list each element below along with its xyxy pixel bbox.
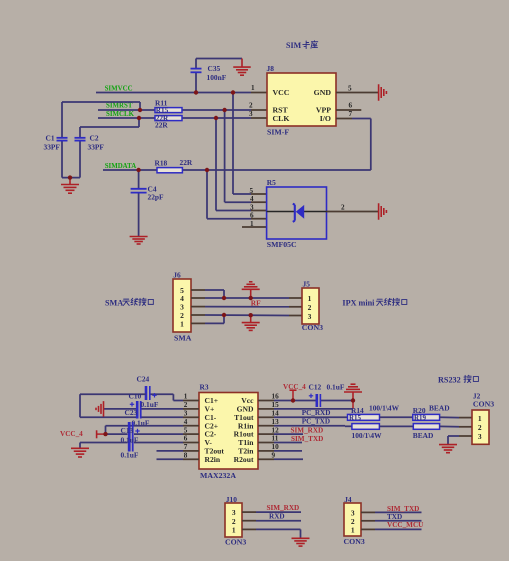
wire net SIMRST <box>98 109 267 111</box>
svg-text:PC_RXD: PC_RXD <box>302 409 331 417</box>
svg-text:R3: R3 <box>200 383 209 392</box>
capacitor C4 22pF <box>131 170 164 237</box>
designator C23 <box>125 408 138 417</box>
svg-text:2: 2 <box>478 423 482 432</box>
net label RF <box>251 299 261 308</box>
svg-text:BEAD: BEAD <box>413 431 434 440</box>
ground (inverted, above RF wire) <box>242 282 260 298</box>
pin 7 stub (T2out) <box>157 450 200 452</box>
capacitor C35 100nF <box>191 64 227 82</box>
capacitors C10/C23 0.1uF (stacked plates) <box>137 401 141 419</box>
connector J4 CON3 <box>344 495 365 546</box>
svg-text:BEAD: BEAD <box>429 404 450 413</box>
svg-text:SMA: SMA <box>174 333 192 342</box>
svg-text:C10: C10 <box>129 391 142 400</box>
svg-text:SIMVCC: SIMVCC <box>105 85 133 92</box>
polarity + (C24) <box>152 393 156 397</box>
wire (SIMRST tap to R5 pin4) <box>225 110 267 202</box>
junction <box>222 296 226 300</box>
svg-text:SIM_TXD: SIM_TXD <box>387 505 419 513</box>
connector J2 CON3 (RS232) <box>472 392 494 445</box>
wire (C2 branch: SIMCLK loop) <box>62 118 139 178</box>
wire net TXD (J4 pin2) <box>361 520 422 522</box>
svg-text:15: 15 <box>272 401 280 409</box>
svg-text:14: 14 <box>272 410 280 418</box>
pin 1 (J8 VCC) <box>251 84 255 92</box>
svg-text:I/O: I/O <box>320 114 331 123</box>
svg-text:C35: C35 <box>208 64 221 73</box>
svg-text:1: 1 <box>232 525 236 534</box>
svg-text:22R: 22R <box>155 121 168 130</box>
junction <box>249 296 253 300</box>
pin 10 stub (T2in) <box>258 450 302 452</box>
ground (C4) <box>130 237 148 245</box>
svg-text:0.1uF: 0.1uF <box>141 400 159 409</box>
net label RXD <box>269 513 285 521</box>
svg-text:9: 9 <box>272 452 276 460</box>
svg-text:C24: C24 <box>137 375 150 384</box>
wire (J10 pin1 to ground) <box>242 529 301 538</box>
svg-text:RXD: RXD <box>269 513 285 521</box>
svg-text:R15: R15 <box>156 106 169 114</box>
wire net SIMCLK <box>98 117 267 119</box>
net label TXD <box>387 513 402 521</box>
wire (J2 pin3 to ground) <box>448 436 472 445</box>
svg-text:16: 16 <box>272 393 280 401</box>
junction <box>214 116 218 120</box>
svg-text:8: 8 <box>184 452 188 460</box>
svg-text:R2out: R2out <box>234 455 254 464</box>
pin 9 (R3) <box>272 452 276 460</box>
pin 6 (R3) <box>184 435 188 443</box>
power port VCC_4 (left) <box>60 430 106 439</box>
resistor R15 22R <box>155 115 182 130</box>
ground (C35) <box>233 59 251 76</box>
ground (C1/C2) <box>61 178 79 194</box>
svg-text:C23: C23 <box>125 408 138 417</box>
ground (J10 pin1) <box>292 538 310 546</box>
svg-text:22R: 22R <box>180 158 193 167</box>
net label SIM_TXD (J4) <box>387 505 419 513</box>
svg-text:1: 1 <box>478 414 482 423</box>
pin 11 (R3) <box>272 435 279 443</box>
svg-text:SIM: SIM <box>286 41 302 50</box>
wire net RXD (J10 pin2) <box>242 520 301 522</box>
ground (inverted, above C12 node) <box>344 384 362 400</box>
capacitor C24 0.1uF <box>137 375 150 400</box>
svg-text:4: 4 <box>250 195 254 203</box>
resistor (lower) 100/1\4W <box>352 424 383 441</box>
svg-text:12: 12 <box>272 426 280 434</box>
svg-text:RS232: RS232 <box>438 375 461 384</box>
designator C10 <box>129 391 142 400</box>
svg-text:TXD: TXD <box>387 513 402 521</box>
net label SIMCLK <box>106 111 135 118</box>
junction <box>222 313 226 317</box>
wire net SIM_RXD (pin12 stub) <box>258 433 303 435</box>
svg-text:5: 5 <box>184 426 188 434</box>
svg-text:1: 1 <box>251 84 255 92</box>
svg-text:1: 1 <box>180 319 184 328</box>
wire (SIMDATA tap to R5 pin6) <box>207 170 267 219</box>
svg-text:5: 5 <box>348 84 352 92</box>
svg-text:6: 6 <box>349 101 353 109</box>
wire (J6 pin3 to J5 pin2) <box>191 306 302 308</box>
pin 3 (J8 CLK) <box>249 110 253 118</box>
connector J8 SIM-F <box>267 64 337 137</box>
pin 2 (R3) <box>184 401 188 409</box>
svg-text:SIMRST: SIMRST <box>106 103 133 110</box>
pin 6 (R5) <box>250 212 254 220</box>
net label SIM_RXD <box>291 426 324 434</box>
junction <box>103 432 107 436</box>
wire (pin16 Vcc row) <box>258 400 353 402</box>
svg-text:5: 5 <box>250 187 254 195</box>
wire net SIMDATA <box>103 119 371 171</box>
pin 1 (R5) stub <box>242 226 267 228</box>
resistor R18 22R <box>155 158 193 173</box>
wire (bead to J2 pin2) <box>440 425 472 427</box>
connector J6 SMA <box>173 271 192 343</box>
pin 5 (J8 GND) + wire <box>336 84 379 92</box>
net label SIMVCC <box>105 85 133 92</box>
polarity + (C13) <box>135 429 139 433</box>
pin 5 (R5) <box>250 187 254 195</box>
svg-text:7: 7 <box>184 443 188 451</box>
svg-text:SIMCLK: SIMCLK <box>106 111 135 118</box>
wire net SIM_TXD (J4 pin3) <box>361 511 422 513</box>
wire net PC_RXD (pin14 row) <box>258 416 348 418</box>
capacitor C1 33PF <box>44 134 68 152</box>
connector J10 CON3 <box>225 495 246 546</box>
svg-text:7: 7 <box>349 110 353 118</box>
svg-text:CLK: CLK <box>273 114 290 123</box>
ferrite bead (lower) BEAD <box>413 424 440 441</box>
connector J5 CON3 (IPX) <box>302 279 323 332</box>
svg-text:SIM_TXD: SIM_TXD <box>291 435 323 443</box>
svg-text:100nF: 100nF <box>207 73 227 82</box>
svg-text:6: 6 <box>250 212 254 220</box>
pin 3 (R3) <box>184 410 188 418</box>
ground (J2 pin3) <box>439 445 457 453</box>
resistor R11 22R <box>155 98 182 114</box>
wire net SIM_TXD (pin11 stub) <box>258 442 302 444</box>
wire (SIMVCC tap to R5 pin5) <box>233 93 267 195</box>
svg-text:3: 3 <box>250 204 254 212</box>
net label PC_TXD <box>302 417 330 425</box>
capacitor C2 33PF <box>75 134 105 152</box>
svg-text:1: 1 <box>250 220 254 228</box>
wire (pin4 C2+ row down to VCC_4 node) <box>106 426 200 434</box>
svg-text:2: 2 <box>341 203 345 211</box>
junction <box>231 90 235 94</box>
pin 3 (R5) <box>250 204 254 212</box>
wire (J6 pin1 up to pin2 net) <box>191 315 224 323</box>
ground (V- branch) <box>71 448 89 457</box>
TVS diode array R5 SMF05C <box>267 178 327 249</box>
pin 5 (R3) <box>184 426 188 434</box>
svg-text:C13: C13 <box>121 426 134 435</box>
label SMA antenna port <box>105 298 153 307</box>
junction <box>205 168 209 172</box>
junction <box>249 313 253 317</box>
wire net PC_TXD (pin13 row) <box>258 425 352 428</box>
svg-text:1: 1 <box>351 525 355 534</box>
diode symbol (in R5) <box>267 204 327 222</box>
svg-text:11: 11 <box>272 435 279 443</box>
value 0.1uF (C10) <box>141 400 159 409</box>
svg-text:0.1uF: 0.1uF <box>121 450 139 459</box>
pin 1 (R3) <box>184 393 188 401</box>
pin 7 (J8 I/O) wire <box>336 110 371 119</box>
svg-text:SIM_RXD: SIM_RXD <box>267 504 300 512</box>
pin 16 (R3) <box>272 393 280 401</box>
label IPX mini antenna port <box>342 298 406 307</box>
junction <box>351 398 355 402</box>
wire (J6 pin2 to J5 pin3) <box>191 314 302 317</box>
pin 13 (R3) <box>272 418 280 426</box>
resistor R14 100/1\4W (upper) <box>348 404 400 422</box>
title SIM card holder <box>286 41 318 50</box>
designator C13 <box>121 426 134 435</box>
wire RF net (J6 pin4 to J5 pin1) <box>191 297 302 299</box>
junction <box>138 108 142 112</box>
svg-text:CON3: CON3 <box>473 399 494 408</box>
power port VCC_4 (top right) <box>283 383 306 401</box>
pin 12 (R3) <box>272 426 280 434</box>
pin 2 (R5) + wire <box>327 203 379 211</box>
ferrite bead R20 BEAD (upper) <box>413 404 450 422</box>
pin 2 (J8 RST) <box>249 102 253 110</box>
capacitors C13 + 0.1uF (stacked plates) <box>129 422 133 452</box>
svg-text:2: 2 <box>184 401 188 409</box>
wire net VCC_MCU (J4 pin1) <box>361 528 422 530</box>
wire net SIM_RXD (J10 pin3) <box>242 511 301 513</box>
svg-text:C12: C12 <box>309 382 322 391</box>
wire net SIMVCC <box>96 59 267 93</box>
pin 14 (R3) <box>272 410 280 418</box>
wire (R14 to R20) upper <box>380 416 413 418</box>
svg-text:3: 3 <box>478 432 482 441</box>
wire (C1 branch: SIMRST loop) <box>62 102 140 178</box>
svg-text:VCC_4: VCC_4 <box>60 430 83 438</box>
wire (R20 to J2 pin1) <box>440 416 472 418</box>
svg-text:100/1\4W: 100/1\4W <box>352 431 383 440</box>
value 0.1uF (C13) <box>121 435 139 444</box>
net label SIMDATA <box>105 163 137 170</box>
value 0.1uF (lower bypass) <box>121 450 139 459</box>
wire (pin3 C1- row) <box>142 416 200 418</box>
IC R3 MAX232A <box>199 383 258 480</box>
pin 8 (R3) <box>184 452 188 460</box>
junction <box>194 90 198 94</box>
wire (pin15 GND row) <box>258 401 353 409</box>
pin 1 (R5) <box>250 220 254 228</box>
pin 9 stub (R2out) <box>258 458 303 460</box>
svg-text:CON3: CON3 <box>225 537 246 546</box>
svg-text:0.1uF: 0.1uF <box>327 382 345 391</box>
ground (R5 pin2, rotated right) <box>379 203 387 220</box>
pin 6 (J8 VPP) stub <box>336 101 361 110</box>
svg-text:SIM-F: SIM-F <box>267 127 289 136</box>
pin 10 (R3) <box>272 443 280 451</box>
wire (J6 pin5 to pin4 net) <box>191 290 224 298</box>
svg-text:PC_TXD: PC_TXD <box>302 417 330 425</box>
wire (C24 left loop to pin3 row) <box>80 394 146 417</box>
svg-text:1: 1 <box>184 393 188 401</box>
net label SIMRST <box>106 103 133 110</box>
net label SIM_RXD (J10) <box>267 504 300 512</box>
net label PC_RXD <box>302 409 331 417</box>
capacitor C12 0.1uF <box>309 382 345 407</box>
net label VCC_MCU <box>387 521 424 529</box>
svg-text:R5: R5 <box>267 178 276 187</box>
svg-text:100/1\4W: 100/1\4W <box>369 404 400 413</box>
svg-text:1: 1 <box>308 294 312 303</box>
pin 4 (R5) <box>250 195 254 203</box>
net label SIM_TXD <box>291 435 323 443</box>
svg-text:SMF05C: SMF05C <box>267 240 297 249</box>
junction <box>137 116 141 120</box>
svg-text:R19: R19 <box>414 414 427 422</box>
svg-text:33PF: 33PF <box>44 143 61 152</box>
junction <box>291 398 295 402</box>
svg-text:13: 13 <box>272 418 280 426</box>
svg-text:4: 4 <box>184 418 188 426</box>
svg-text:22pF: 22pF <box>148 193 165 202</box>
svg-text:J5: J5 <box>303 279 311 288</box>
svg-text:R2in: R2in <box>205 455 221 464</box>
junction <box>222 108 226 112</box>
polarity + (C10) <box>130 402 134 406</box>
svg-text:2: 2 <box>249 102 253 110</box>
svg-text:33PF: 33PF <box>88 143 105 152</box>
svg-text:MAX232A: MAX232A <box>200 471 236 480</box>
wire (pin6 V- row to ground) <box>80 443 199 449</box>
svg-text:SIM_RXD: SIM_RXD <box>291 426 324 434</box>
pin 15 (R3) <box>272 401 280 409</box>
wire (pin1 C1+ jog to C24) <box>150 394 200 400</box>
wire (SIMCLK tap to R5 pin3) <box>216 118 267 211</box>
svg-text:C1: C1 <box>46 134 55 143</box>
ground (rotated left, V+ row) <box>96 401 104 417</box>
label RS232 port <box>438 375 478 384</box>
wire (pin2 V+ row) <box>104 408 199 410</box>
ground (J8 GND, rotated right) <box>379 84 387 101</box>
svg-text:2: 2 <box>308 303 312 312</box>
junction <box>136 168 140 172</box>
value 0.1uF (C23) <box>132 418 150 427</box>
svg-text:GND: GND <box>314 88 332 97</box>
ground (below antenna wire) <box>242 315 260 330</box>
wire (lower resistors link) <box>379 425 413 427</box>
svg-text:VCC_MCU: VCC_MCU <box>387 521 424 529</box>
svg-text:R18: R18 <box>155 158 168 167</box>
svg-text:6: 6 <box>184 435 188 443</box>
junction <box>68 175 72 179</box>
svg-text:CON3: CON3 <box>344 537 365 546</box>
svg-text:10: 10 <box>272 443 280 451</box>
svg-text:C2: C2 <box>90 134 99 143</box>
svg-text:J8: J8 <box>267 64 275 73</box>
svg-text:SIMDATA: SIMDATA <box>105 163 137 170</box>
polarity + (C12) <box>309 394 313 398</box>
wire (pin5 C2- row) <box>106 433 200 435</box>
svg-text:VCC: VCC <box>273 88 290 97</box>
pin 8 stub (R2in) <box>157 458 200 460</box>
svg-text:3: 3 <box>184 410 188 418</box>
svg-text:3: 3 <box>249 110 253 118</box>
svg-text:3: 3 <box>308 312 312 321</box>
svg-text:IPX mini: IPX mini <box>342 298 375 307</box>
svg-text:CON3: CON3 <box>302 323 323 332</box>
pin 7 (R3) <box>184 443 188 451</box>
svg-text:SMA: SMA <box>105 298 123 307</box>
pin 4 (R3) <box>184 418 188 426</box>
svg-text:R15: R15 <box>349 414 362 422</box>
